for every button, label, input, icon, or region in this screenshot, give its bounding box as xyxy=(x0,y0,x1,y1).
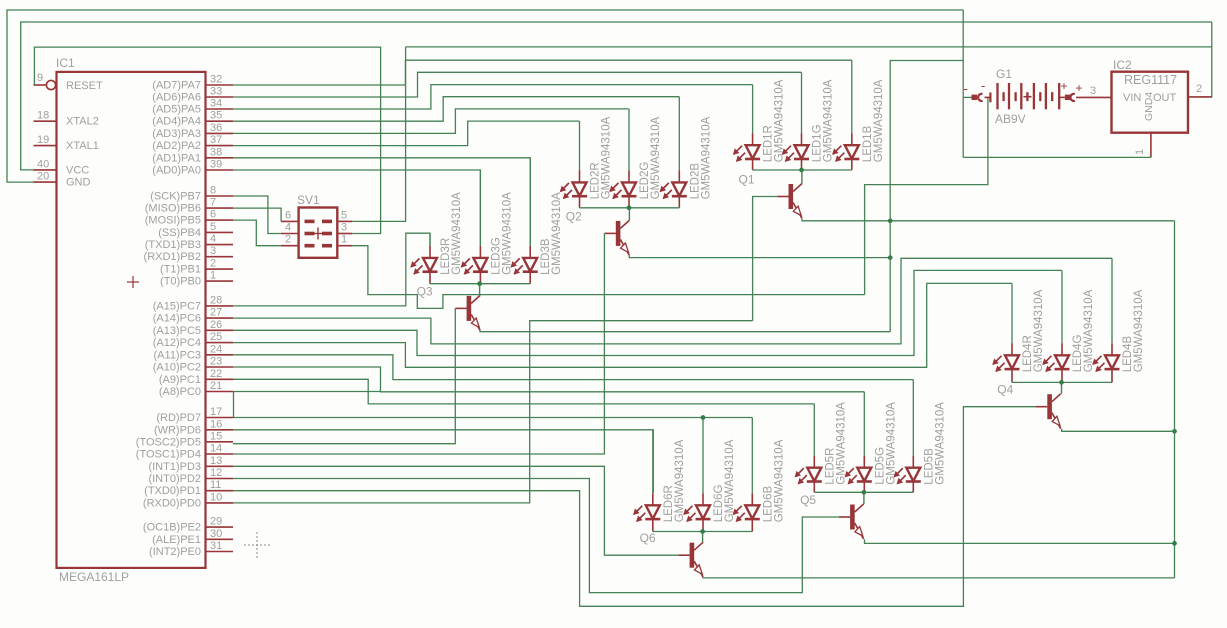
wire LED4 cathode bus xyxy=(1012,381,1112,383)
LED LED6R xyxy=(633,430,660,532)
svg-text:37: 37 xyxy=(210,134,222,146)
wire PA5 to LED1R anode xyxy=(233,85,753,109)
pin (A12)PC4 stub pin-number 25 xyxy=(206,342,234,344)
SV1 pin 6 (left) and pin 5 (right) xyxy=(281,220,299,222)
wire battery plus to VIN pin 3 xyxy=(1076,96,1112,98)
junction Q5 emitter on GND vertical xyxy=(1172,541,1177,546)
svg-text:28: 28 xyxy=(210,294,222,306)
wire PA6 to LED1G anode xyxy=(233,72,802,97)
svg-text:GM5WA94310A: GM5WA94310A xyxy=(835,402,847,485)
svg-text:GND: GND xyxy=(66,177,91,189)
wire PA3 to LED2G anode xyxy=(233,109,629,133)
pin (TOSC2)PD5 stub pin-number 15 xyxy=(206,441,234,443)
wire Q4 emitter xyxy=(1062,429,1175,431)
wire PB6 (pin7) to SV1 pin6 xyxy=(233,208,281,221)
svg-text:(T1)PB1: (T1)PB1 xyxy=(160,264,201,276)
battery G1 cells xyxy=(996,83,998,109)
svg-text:G1: G1 xyxy=(996,67,1012,81)
IC IC1 MEGA161LP box xyxy=(57,72,206,568)
wire PC5 to LED4G anode xyxy=(233,270,1062,355)
wire Q5 emitter to GND vertical xyxy=(865,539,1175,543)
svg-text:(SCK)PB7: (SCK)PB7 xyxy=(150,191,201,203)
wire Q4 collector xyxy=(1061,382,1063,393)
svg-text:18: 18 xyxy=(37,110,49,122)
pin (RXD1)PB2 stub pin-number 3 xyxy=(206,256,234,258)
svg-text:GM5WA94310A: GM5WA94310A xyxy=(501,192,513,275)
pin (T0)PB0 stub pin-number 1 xyxy=(206,280,234,282)
wire PC1 to LED5R anode xyxy=(233,379,814,404)
svg-text:GM5WA94310A: GM5WA94310A xyxy=(873,79,885,162)
svg-text:Q4: Q4 xyxy=(997,383,1013,397)
LED LED1G xyxy=(782,72,809,170)
wire PC4 to LED4R anode xyxy=(233,283,1012,367)
pin (A8)PC0 stub pin-number 21 xyxy=(206,391,234,393)
svg-text:MEGA161LP: MEGA161LP xyxy=(59,570,129,584)
wire Q3 base riser from PD5 xyxy=(233,308,455,443)
svg-text:GM5WA94310A: GM5WA94310A xyxy=(934,402,946,485)
junction LED6G anode tap xyxy=(701,415,706,420)
wire PC3 to LED5B anode xyxy=(233,355,913,380)
wire PA7 to LED1B anode xyxy=(233,60,852,85)
svg-text:+: + xyxy=(1061,79,1068,93)
LED LED5G xyxy=(845,392,872,493)
svg-text:AB9V: AB9V xyxy=(995,112,1026,126)
svg-text:(AD5)PA5: (AD5)PA5 xyxy=(152,104,201,116)
transistor Q1 xyxy=(777,184,802,219)
wire LED5 cathode bus xyxy=(814,491,913,493)
pin (MOSI)PB5 stub pin-number 6 xyxy=(206,219,234,221)
wire PD6 to LED6R anode xyxy=(233,430,653,493)
svg-text:17: 17 xyxy=(210,406,222,418)
wire VCC main to regulator xyxy=(406,46,1212,48)
svg-text:Q6: Q6 xyxy=(640,531,656,545)
svg-text:(AD7)PA7: (AD7)PA7 xyxy=(152,80,201,92)
LED LED2R xyxy=(560,121,587,208)
svg-text:1: 1 xyxy=(210,270,216,282)
pin (SCK)PB7 stub pin-number 8 xyxy=(206,195,234,197)
IC IC2 REG1117 box xyxy=(1112,72,1189,133)
svg-text:14: 14 xyxy=(210,443,222,455)
LED LED4R xyxy=(992,283,1019,382)
pin (TOSC1)PD4 stub pin-number 14 xyxy=(206,453,234,455)
svg-text:GM5WA94310A: GM5WA94310A xyxy=(1083,289,1095,372)
svg-text:VIN: VIN xyxy=(1123,92,1141,104)
pin GND (20) stub xyxy=(34,181,57,183)
svg-text:3: 3 xyxy=(210,245,216,257)
svg-text:16: 16 xyxy=(210,418,222,430)
svg-text:19: 19 xyxy=(37,134,49,146)
LED LED2G xyxy=(609,109,636,208)
junction LED1 bus xyxy=(799,168,804,173)
svg-text:(WR)PD6: (WR)PD6 xyxy=(154,424,201,436)
svg-text:5: 5 xyxy=(210,221,216,233)
wire emitter GND vertical right xyxy=(1174,221,1176,578)
junction LED2 bus xyxy=(627,205,632,210)
svg-text:GM5WA94310A: GM5WA94310A xyxy=(650,116,662,199)
svg-text:Q3: Q3 xyxy=(417,284,433,298)
wire Q6 base from PD3 xyxy=(233,466,678,555)
svg-text:(A11)PC3: (A11)PC3 xyxy=(154,349,201,361)
svg-text:2: 2 xyxy=(1196,83,1202,95)
transistor Q3 xyxy=(455,295,480,330)
wire PC0 row stub xyxy=(233,391,381,393)
svg-text:26: 26 xyxy=(210,319,222,331)
svg-text:3: 3 xyxy=(1090,85,1096,97)
svg-text:-: - xyxy=(981,78,985,93)
wire PC7 to LED3R anode xyxy=(233,233,430,306)
svg-text:REG1117: REG1117 xyxy=(1124,73,1177,87)
svg-text:GM5WA94310A: GM5WA94310A xyxy=(601,116,613,199)
wire PC0 (pin21) jog down to PD7 row xyxy=(233,392,235,418)
svg-text:25: 25 xyxy=(210,331,222,343)
svg-text:(TXD0)PD1: (TXD0)PD1 xyxy=(144,485,201,497)
wire PB7 (pin8) to SV1 pin4 xyxy=(233,196,281,234)
svg-text:36: 36 xyxy=(210,122,222,134)
svg-text:23: 23 xyxy=(210,356,222,368)
pin (AD3)PA3 stub pin-number 36 xyxy=(206,132,234,134)
wire Q1 collector xyxy=(801,170,803,184)
LED LED4G xyxy=(1042,270,1069,382)
svg-text:GM5WA94310A: GM5WA94310A xyxy=(700,116,712,199)
svg-text:(AD2)PA2: (AD2)PA2 xyxy=(152,140,201,152)
svg-text:4: 4 xyxy=(210,233,216,245)
wire Q4 base from PD1 detour xyxy=(233,407,1036,607)
pin (SS)PB4 stub pin-number 5 xyxy=(206,231,234,233)
wire LED6 cathode bus xyxy=(653,531,753,533)
wire VCC top loop from pin40 xyxy=(21,22,1212,170)
wire PD7 row to LED6G and LED6B xyxy=(233,417,752,419)
svg-text:27: 27 xyxy=(210,307,222,319)
svg-text:(INT0)PD2: (INT0)PD2 xyxy=(148,473,201,485)
transistor Q2 xyxy=(605,220,630,255)
transistor Q4 xyxy=(1036,394,1061,429)
svg-text:Q5: Q5 xyxy=(800,493,816,507)
transistor Q6 xyxy=(678,542,703,577)
pin (ALE)PE1 stub pin-number 30 xyxy=(206,538,234,540)
pin XTAL1 (19) stub xyxy=(34,145,57,147)
battery G1 minus clip xyxy=(972,95,978,100)
wire LED1 cathode bus xyxy=(753,169,852,171)
wire Q2 emitter to GND riser xyxy=(629,255,890,257)
svg-text:XTAL1: XTAL1 xyxy=(66,140,99,152)
pin (A14)PC6 stub pin-number 27 xyxy=(206,317,234,319)
svg-text:5: 5 xyxy=(341,209,347,221)
svg-text:11: 11 xyxy=(210,479,221,491)
junction Q1 emitter GND riser xyxy=(888,218,893,223)
svg-text:8: 8 xyxy=(210,185,216,197)
wire PA0 to LED3G anode xyxy=(233,170,480,246)
svg-text:21: 21 xyxy=(210,380,222,392)
pin XTAL2 (18) stub xyxy=(34,120,57,122)
svg-text:(A15)PC7: (A15)PC7 xyxy=(153,300,201,312)
svg-text:GM5WA94310A: GM5WA94310A xyxy=(1133,289,1145,372)
battery middle plus tick xyxy=(1024,96,1032,98)
pin (INT0)PD2 stub pin-number 12 xyxy=(206,478,234,480)
LED LED5R xyxy=(795,404,822,492)
connector SV1 box xyxy=(299,208,338,258)
LED LED1R xyxy=(733,85,760,170)
SV1 origin cross xyxy=(312,233,324,235)
SV1 pin 2 (left) and pin 1 (right) xyxy=(281,245,299,247)
wire PB5 (pin6) to SV1 pin2 xyxy=(233,220,281,246)
svg-text:(OC1B)PE2: (OC1B)PE2 xyxy=(143,522,201,534)
svg-text:40: 40 xyxy=(37,158,49,170)
svg-text:1: 1 xyxy=(1134,149,1146,155)
wire Q2 base from PD4 xyxy=(233,233,604,454)
wire Q5 base from PD2 detour xyxy=(233,479,839,593)
svg-text:-: - xyxy=(964,81,968,96)
wire VCC right drop to OUT pin xyxy=(1200,22,1212,97)
svg-text:(A13)PC5: (A13)PC5 xyxy=(153,325,201,337)
pin (A10)PC2 stub pin-number 23 xyxy=(206,366,234,368)
svg-text:IC2: IC2 xyxy=(1113,58,1132,72)
svg-text:Q2: Q2 xyxy=(566,209,582,223)
svg-text:(A12)PC4: (A12)PC4 xyxy=(153,337,201,349)
REG1117 OUT pin 2 stub xyxy=(1188,96,1212,98)
svg-text:(ALE)PE1: (ALE)PE1 xyxy=(152,534,201,546)
wire PD0 to Q1 base xyxy=(233,321,753,503)
pin (A13)PC5 stub pin-number 26 xyxy=(206,329,234,331)
svg-text:(A10)PC2: (A10)PC2 xyxy=(153,362,201,374)
junction Q2 emitter on GND riser xyxy=(888,255,893,260)
svg-text:GM5WA94310A: GM5WA94310A xyxy=(451,192,463,275)
svg-text:(A8)PC0: (A8)PC0 xyxy=(159,386,201,398)
pin (MISO)PB6 stub pin-number 7 xyxy=(206,207,234,209)
svg-text:38: 38 xyxy=(210,146,222,158)
svg-text:(TOSC2)PD5: (TOSC2)PD5 xyxy=(136,436,201,448)
junction LED3 bus xyxy=(477,281,482,286)
svg-text:2: 2 xyxy=(285,234,291,246)
svg-text:2: 2 xyxy=(210,258,216,270)
wire Q3 emitter to GND riser xyxy=(480,330,890,331)
svg-text:(AD4)PA4: (AD4)PA4 xyxy=(152,116,201,128)
svg-text:7: 7 xyxy=(210,197,216,209)
wire PA2 to LED2R anode xyxy=(233,121,580,146)
IC1 origin cross xyxy=(127,281,139,283)
wire PA1 to LED3B anode xyxy=(233,158,530,246)
pin (T1)PB1 stub pin-number 2 xyxy=(206,268,234,270)
SV1 pin 4 (left) and pin 3 (right) xyxy=(281,233,299,235)
svg-text:4: 4 xyxy=(285,222,291,234)
wire Q6 emitter bus xyxy=(703,576,1175,579)
pin (A11)PC3 stub pin-number 24 xyxy=(206,354,234,356)
pin (TXD0)PD1 stub pin-number 11 xyxy=(206,490,234,492)
svg-text:GND4: GND4 xyxy=(1143,92,1155,121)
REG1117 GND pin 1 stub xyxy=(1150,133,1152,158)
LED LED5B xyxy=(894,380,921,493)
pin (A15)PC7 stub pin-number 28 xyxy=(206,305,234,307)
svg-text:(INT2)PE0: (INT2)PE0 xyxy=(149,546,201,558)
svg-text:IC1: IC1 xyxy=(56,56,75,70)
svg-text:(AD6)PA6: (AD6)PA6 xyxy=(152,92,201,104)
svg-text:33: 33 xyxy=(210,86,222,98)
wire GND top loop from pin20 xyxy=(7,10,963,182)
svg-text:12: 12 xyxy=(210,467,222,479)
svg-text:(A9)PC1: (A9)PC1 xyxy=(159,374,201,386)
wire RESET net to SV1 pin3 xyxy=(34,47,380,233)
wire Q1 base to PD0 riser xyxy=(753,197,778,321)
svg-text:(TXD1)PB3: (TXD1)PB3 xyxy=(145,239,201,251)
svg-text:22: 22 xyxy=(210,368,222,380)
svg-text:30: 30 xyxy=(210,528,222,540)
svg-text:GM5WA94310A: GM5WA94310A xyxy=(823,79,835,162)
pin (RD)PD7 stub pin-number 17 xyxy=(206,417,234,419)
LED LED6B xyxy=(733,418,760,532)
svg-text:15: 15 xyxy=(210,430,222,442)
svg-text:(SS)PB4: (SS)PB4 xyxy=(158,227,201,239)
svg-text:(AD3)PA3: (AD3)PA3 xyxy=(152,128,201,140)
LED LED3R xyxy=(410,233,437,284)
svg-text:3: 3 xyxy=(341,222,347,234)
battery G1 minus wire xyxy=(962,10,964,157)
pin (AD0)PA0 stub pin-number 39 xyxy=(206,169,234,171)
LED LED2B xyxy=(660,97,687,208)
svg-text:OUT: OUT xyxy=(1153,92,1177,104)
svg-text:(RXD1)PB2: (RXD1)PB2 xyxy=(144,251,201,263)
svg-text:39: 39 xyxy=(210,159,222,171)
wire GND riser vertical xyxy=(890,61,963,332)
battery G1 plus clip xyxy=(1059,96,1065,98)
wire Q2 collector xyxy=(628,208,630,221)
svg-text:29: 29 xyxy=(210,516,222,528)
wire PC2 to LED5G anode xyxy=(233,367,864,392)
wire Q3 collector xyxy=(479,284,481,296)
junction LED6 bus xyxy=(700,529,705,534)
svg-text:+: + xyxy=(1076,81,1083,95)
pin (RXD0)PD0 stub pin-number 10 xyxy=(206,502,234,504)
svg-text:RESET: RESET xyxy=(66,80,103,92)
svg-text:Q1: Q1 xyxy=(739,173,755,187)
pin (AD1)PA1 stub pin-number 38 xyxy=(206,157,234,159)
svg-text:(T0)PB0: (T0)PB0 xyxy=(160,276,201,288)
transistor Q5 xyxy=(839,504,864,539)
pin (WR)PD6 stub pin-number 16 xyxy=(206,429,234,431)
pin RESET (9) stub with inversion circle xyxy=(34,84,47,86)
svg-text:GM5WA94310A: GM5WA94310A xyxy=(674,439,686,522)
svg-text:24: 24 xyxy=(210,343,222,355)
svg-text:GM5WA94310A: GM5WA94310A xyxy=(1033,289,1045,372)
LED LED1B xyxy=(832,60,859,170)
wire VCC branch down to SV1 pin5 xyxy=(352,47,405,222)
svg-text:6: 6 xyxy=(210,209,216,221)
pin (AD2)PA2 stub pin-number 37 xyxy=(206,145,234,147)
wire GND bus riser from battery minus xyxy=(865,97,988,294)
junction Q4 emitter on GND vertical xyxy=(1172,429,1177,434)
wire PC6 to LED4B anode xyxy=(233,258,1112,344)
pin VCC (40) stub xyxy=(34,169,57,171)
pin (INT2)PE0 stub pin-number 31 xyxy=(206,551,234,553)
svg-text:9: 9 xyxy=(37,72,43,84)
wire SV1 pin1 to GND bus xyxy=(352,246,864,309)
wire Q1 emitter to GND xyxy=(802,219,1175,221)
pin (AD7)PA7 stub pin-number 32 xyxy=(206,84,234,86)
pin (INT1)PD3 stub pin-number 13 xyxy=(206,465,234,467)
pin (A9)PC1 stub pin-number 22 xyxy=(206,378,234,380)
svg-text:SV1: SV1 xyxy=(297,193,320,207)
wire REG GND pin1 to battery minus xyxy=(963,156,1151,158)
svg-text:(MISO)PB6: (MISO)PB6 xyxy=(145,203,201,215)
svg-text:(TOSC1)PD4: (TOSC1)PD4 xyxy=(136,449,201,461)
LED LED4B xyxy=(1092,258,1119,382)
junction LED4 bus xyxy=(1059,380,1064,385)
pin (OC1B)PE2 stub pin-number 29 xyxy=(206,526,234,528)
svg-text:(RXD0)PD0: (RXD0)PD0 xyxy=(143,497,201,509)
pin (AD5)PA5 stub pin-number 34 xyxy=(206,108,234,110)
svg-text:10: 10 xyxy=(210,491,222,503)
svg-text:(RD)PD7: (RD)PD7 xyxy=(156,412,201,424)
svg-text:(AD1)PA1: (AD1)PA1 xyxy=(152,152,201,164)
svg-text:(MOSI)PB5: (MOSI)PB5 xyxy=(145,215,201,227)
svg-text:31: 31 xyxy=(210,540,222,552)
svg-text:34: 34 xyxy=(210,98,222,110)
LED LED6G xyxy=(683,418,710,532)
LED LED3G xyxy=(461,170,488,284)
wire PA4 to LED2B anode xyxy=(233,97,679,122)
svg-text:35: 35 xyxy=(210,110,222,122)
svg-text:GM5WA94310A: GM5WA94310A xyxy=(773,439,785,522)
svg-text:32: 32 xyxy=(210,74,222,86)
pin (AD4)PA4 stub pin-number 35 xyxy=(206,120,234,122)
cursor crosshair xyxy=(244,532,270,558)
svg-text:(AD0)PA0: (AD0)PA0 xyxy=(152,165,201,177)
LED LED3B xyxy=(511,158,538,284)
svg-text:VCC: VCC xyxy=(66,164,89,176)
svg-text:GM5WA94310A: GM5WA94310A xyxy=(551,192,563,275)
wire Q5 collector xyxy=(863,492,865,504)
svg-text:(INT1)PD3: (INT1)PD3 xyxy=(148,461,201,473)
junction LED5 bus xyxy=(862,490,867,495)
wire Q6 collector xyxy=(702,532,704,543)
pin (AD6)PA6 stub pin-number 33 xyxy=(206,96,234,98)
wire LED2 cathode bus xyxy=(580,207,680,209)
svg-text:XTAL2: XTAL2 xyxy=(66,116,99,128)
svg-text:6: 6 xyxy=(285,209,291,221)
svg-text:13: 13 xyxy=(210,455,222,467)
wire LED3 cathode bus xyxy=(430,283,530,285)
pin (TXD1)PB3 stub pin-number 4 xyxy=(206,244,234,246)
svg-text:(A14)PC6: (A14)PC6 xyxy=(153,313,201,325)
svg-text:1: 1 xyxy=(341,234,347,246)
svg-text:20: 20 xyxy=(37,171,49,183)
